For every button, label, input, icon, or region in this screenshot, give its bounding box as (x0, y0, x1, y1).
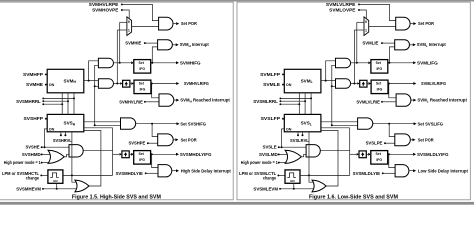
svg-text:1: 1 (365, 29, 367, 33)
wire Set IFG 1 output SVMHIFG (151, 62, 176, 64)
wire module out to A2 top input, branch to A1 top input (84, 80, 99, 82)
wire one-shot output to O2 top input (72, 175, 76, 182)
wire SVMHVLRPE to OR gate top input (122, 4, 159, 20)
wire module out to A2 top input, branch to A1 top input (321, 80, 336, 82)
wire Set IFG 2 output SVMHVLRIFG (151, 83, 176, 85)
wire SVS module output to A3 top input (84, 121, 121, 123)
edge detector box E2 (122, 151, 129, 158)
wire SVMLE into module ON (283, 84, 284, 86)
wire SVSHRVL stubs (60, 132, 62, 135)
wire U2 bottom input from IFG line (389, 47, 394, 63)
and-gate A6 delay interrupt (158, 165, 172, 177)
one-shot delay box T1 (48, 170, 63, 183)
svg-text:SVSLRVL: SVSLRVL (290, 138, 309, 143)
and-gate A3 set SVSxIFG (121, 118, 136, 129)
svg-text:IFG: IFG (376, 67, 382, 71)
wire mux input 0 (120, 21, 127, 23)
wire U2 output (410, 44, 413, 46)
and-gate U2 SVM interrupt (395, 40, 410, 50)
wire SVSMHEVM to O2 and EN (43, 188, 77, 190)
svg-text:SVMLVLRPE: SVMLVLRPE (326, 2, 356, 7)
wire A5 output to comparator line (320, 149, 349, 151)
flag box Set IFG 3 (371, 151, 388, 165)
svg-text:Set: Set (138, 152, 144, 156)
mux select 0/1 (364, 17, 369, 36)
wire E1 to Set IFG box 2 (130, 83, 131, 85)
wire O1 output jog to A5 (64, 154, 69, 157)
svg-text:SVSLE: SVSLE (263, 145, 277, 150)
wire SVMHVLRIE to A4 (145, 101, 159, 103)
svg-text:SVSHE: SVSHE (26, 145, 40, 150)
svg-text:change: change (263, 175, 277, 180)
svg-text:SVMHVLRIE: SVMHVLRIE (119, 99, 143, 104)
wire SVS module output to A3 top input (321, 121, 358, 123)
svg-text:IFG: IFG (139, 158, 145, 162)
wire U3 output (173, 139, 175, 141)
svg-text:Set: Set (376, 61, 382, 65)
bus verticals between modules (61, 93, 63, 115)
wire mux input 0 (357, 21, 364, 23)
wire A2 output up to mux input 1 (116, 30, 118, 84)
wire Set IFG 1 output SVMLIFG (388, 62, 413, 64)
svg-text:High power mode = 1: High power mode = 1 (241, 160, 279, 165)
svg-text:SVSHPE: SVSHPE (129, 141, 146, 146)
wire A1 output up to mux input 0 (356, 22, 358, 63)
svg-text:SVSMHEVM: SVSMHEVM (16, 186, 41, 191)
panel border Figure 1.6. Low-Side SVS and SVM (237, 2, 470, 200)
wire A3 output down to POR gate U3 (389, 124, 395, 137)
or-gate U3 set POR low row (395, 134, 411, 146)
wire SVSMLDLYIE to A6 (383, 172, 395, 174)
svg-text:SVSL: SVSL (301, 121, 312, 127)
svg-text:SVMH Reached Interrupt: SVMH Reached Interrupt (180, 98, 230, 104)
wire A6 output (409, 170, 413, 172)
svg-text:EN: EN (290, 179, 294, 183)
svg-text:IFG: IFG (140, 88, 146, 92)
page bottom gray rule (0, 202, 474, 205)
svg-text:SVSLMD: SVSLMD (259, 152, 278, 157)
wire U2 bottom input from IFG line (152, 47, 157, 63)
flag box Set IFG 1 (134, 60, 151, 74)
or-gate O1 SVS mode (48, 150, 64, 163)
wire SVS module lower output net (84, 127, 113, 129)
svg-text:SVSH: SVSH (64, 121, 76, 127)
svg-text:1: 1 (128, 29, 130, 33)
wire SVSHFP into module (46, 118, 47, 120)
or-gate U3 set POR low row (158, 134, 174, 146)
and-gate A4 SVM reached interrupt (159, 94, 174, 106)
svg-text:SVMHOVPE: SVMHOVPE (92, 8, 118, 13)
wire SVSLFP into module (283, 118, 284, 120)
wire Set IFG 3 output SVSMLDLYIFG (388, 153, 413, 155)
svg-text:SVSHRVL: SVSHRVL (53, 138, 72, 143)
wire A2 output up to mux input 1 (353, 30, 355, 84)
svg-text:SVMHIE: SVMHIE (125, 41, 141, 46)
svg-text:IFG: IFG (377, 88, 383, 92)
wire A3 output down to POR gate U3 (152, 124, 158, 137)
svg-text:Set POR: Set POR (181, 137, 198, 142)
svg-text:Set: Set (376, 82, 382, 86)
wire RRL bus bit lines (42, 97, 44, 99)
svg-text:SVMH Interrupt: SVMH Interrupt (180, 42, 210, 48)
wire A3 output (136, 123, 177, 125)
wire SVSLE to ON and A5 top input (279, 146, 306, 148)
wire SVMHE into module ON (46, 84, 47, 86)
wire SVMLVLRIE to A4 (382, 101, 396, 103)
and-gate A4 SVM reached interrupt (396, 94, 411, 106)
svg-text:Low Side Delay Interrupt: Low Side Delay Interrupt (418, 168, 469, 173)
wire SVSLRVL stubs (297, 132, 299, 135)
svg-text:SVMHVLRPE: SVMHVLRPE (89, 2, 119, 7)
wire one-shot output up to SVS module (71, 132, 73, 176)
wire SVMLOVPE to mux select (359, 10, 366, 19)
wire U3 output (410, 139, 412, 141)
svg-text:High power mode = 1: High power mode = 1 (4, 160, 42, 165)
wire O2 output up to SVS module right side (321, 131, 338, 187)
wire RRL bus bit lines (279, 97, 281, 99)
svg-text:SVMLIE: SVMLIE (362, 41, 378, 46)
wire E2 to Set IFG box 3 (129, 153, 131, 155)
svg-text:Figure 1.6. Low-Side SVS and S: Figure 1.6. Low-Side SVS and SVM (309, 194, 398, 200)
svg-text:SVSLPE: SVSLPE (366, 141, 383, 146)
svg-text:ON: ON (49, 83, 55, 87)
svg-text:Set: Set (139, 82, 145, 86)
wire SVSMLEVM to O2 and EN (280, 188, 314, 190)
wire A6 output (172, 170, 176, 172)
wire to edge detector E2 (113, 153, 120, 155)
wire SVMHIE to AND gate (145, 42, 158, 44)
wire A5 output to comparator line (83, 149, 112, 151)
wire mux input 1 (354, 29, 364, 31)
svg-text:SVSMHDLYIFG: SVSMHDLYIFG (180, 152, 212, 157)
svg-text:SVSMLRRL: SVSMLRRL (253, 99, 278, 104)
wire mux output to OR gate bottom input (132, 25, 159, 27)
wire A3 output (373, 123, 414, 125)
svg-text:SVSMHRRL: SVSMHRRL (16, 99, 41, 104)
svg-text:Set SVSHIFG: Set SVSHIFG (180, 121, 206, 126)
wire IFG2 down to A4 top input (152, 84, 159, 98)
svg-text:SVMHFP: SVMHFP (23, 72, 43, 77)
or-gate O2 event mask (75, 180, 89, 192)
svg-text:SVMH: SVMH (64, 78, 77, 84)
and-gate A5 SVS active (69, 145, 83, 157)
wire A4 output (174, 99, 176, 101)
svg-text:SVSLFP: SVSLFP (261, 116, 281, 121)
wire SVMLFP into module (283, 73, 284, 75)
svg-text:SVMHE: SVMHE (26, 82, 43, 87)
svg-text:EN: EN (53, 179, 57, 183)
wire U1 output (410, 23, 413, 25)
svg-text:SVMLOVPE: SVMLOVPE (329, 8, 355, 13)
or-gate U1 set POR high (396, 17, 410, 30)
wire SVMLIE to AND gate (382, 42, 395, 44)
wire SVSHPE to U3 (148, 142, 158, 144)
wire SVMHOVPE to mux select (122, 10, 129, 19)
svg-text:SVSHMD: SVSHMD (22, 152, 41, 157)
svg-text:IFG: IFG (376, 158, 382, 162)
svg-text:Figure 1.5. High-Side SVS and: Figure 1.5. High-Side SVS and SVM (72, 194, 161, 200)
comparator gate A1 (336, 58, 351, 67)
wire O2 output up to SVS module right side (84, 131, 101, 187)
wire ctl change to one-shot (278, 174, 285, 176)
and-gate A5 SVS active (306, 145, 320, 157)
wire SVMLVLRPE to OR gate top input (359, 4, 396, 20)
svg-text:ON: ON (286, 128, 292, 132)
svg-text:Set: Set (139, 61, 145, 65)
wire A2 output to edge detector (114, 83, 121, 85)
wire SVSHE to ON and A5 top input (42, 146, 69, 148)
svg-text:High Side Delay Interrupt: High Side Delay Interrupt (181, 168, 232, 173)
wire mux output to OR gate bottom input (369, 25, 396, 27)
wire SVSMHDLYIE to A6 (146, 172, 158, 174)
wire IFG2 down to A4 top input (389, 84, 396, 98)
wire SVSLPE to U3 (385, 142, 395, 144)
wire enable net to A1/A2/A3 bottom inputs (95, 65, 121, 125)
svg-text:ON: ON (286, 83, 292, 87)
wire IFG3 down to A6 top input (389, 154, 395, 167)
svg-text:SVML Reached Interrupt: SVML Reached Interrupt (417, 98, 467, 104)
wire SVS module lower output net (321, 127, 350, 129)
wire one-shot output net (63, 174, 113, 176)
wire SVSLMD to OR1 (279, 153, 287, 155)
svg-text:SVSMLDLYIE: SVSMLDLYIE (353, 171, 380, 176)
and-gate U2 SVM interrupt (158, 40, 173, 50)
wire A4 output (411, 99, 413, 101)
mux select 0/1 (127, 17, 132, 36)
svg-text:SVSMLEVM: SVSMLEVM (253, 186, 278, 191)
module box SVMH (47, 69, 84, 93)
svg-text:Set POR: Set POR (418, 137, 435, 142)
wire one-shot output net (300, 174, 350, 176)
comparator gate A2 (336, 79, 351, 88)
wire one-shot output to O2 top input (309, 175, 313, 182)
svg-text:SVSMLDLYIFG: SVSMLDLYIFG (417, 152, 449, 157)
svg-text:SVSMHDLYIE: SVSMHDLYIE (116, 171, 143, 176)
svg-text:SVMLIFG: SVMLIFG (417, 60, 438, 65)
svg-text:SVMLFP: SVMLFP (260, 72, 280, 77)
svg-text:SVML Interrupt: SVML Interrupt (417, 42, 447, 48)
or-gate O2 event mask (312, 180, 326, 192)
and-gate A6 delay interrupt (395, 165, 409, 177)
svg-text:Set: Set (376, 152, 382, 156)
svg-text:0: 0 (128, 20, 130, 24)
wire high power mode to OR1 (42, 162, 50, 164)
module box SVSL (284, 114, 321, 131)
wire A1 output up to mux input 0 (119, 22, 121, 63)
wire IFG3 down to A6 top input (152, 154, 158, 167)
flag box Set IFG 2 (134, 80, 151, 94)
wire E1 to Set IFG box 2 (367, 83, 368, 85)
wire SVSHMD to OR1 (42, 153, 50, 155)
wire U1 output (173, 23, 176, 25)
flag box Set IFG 2 (371, 80, 388, 94)
wire SVMHFP into module (46, 73, 47, 75)
wire E2 to Set IFG box 3 (366, 153, 368, 155)
flag box Set IFG 1 (371, 60, 388, 74)
flag box Set IFG 3 (134, 151, 151, 165)
edge detector box E1 (123, 80, 130, 87)
wire Set IFG 3 output SVSMHDLYIFG (151, 153, 176, 155)
wire U2 output (172, 44, 175, 46)
wire mux input 1 (117, 29, 127, 31)
svg-text:SVMLVLRIE: SVMLVLRIE (356, 99, 380, 104)
svg-text:SVML: SVML (301, 78, 313, 84)
svg-text:IFG: IFG (139, 67, 145, 71)
wire A1 output to Set IFG box 1 (114, 62, 131, 64)
module box SVSH (47, 114, 84, 131)
wire A1 output to Set IFG box 1 (351, 62, 368, 64)
wire O1 output jog to A5 (301, 154, 306, 157)
svg-text:SVMHVLRIFG: SVMHVLRIFG (184, 81, 210, 86)
wire enable net to A1/A2/A3 bottom inputs (332, 65, 358, 125)
panel border Figure 1.5. High-Side SVS and SVM (0, 2, 233, 200)
wire high power mode to OR1 (279, 162, 287, 164)
svg-text:SVMLE: SVMLE (263, 82, 280, 87)
and-gate A3 set SVSxIFG (358, 118, 373, 129)
svg-text:0: 0 (365, 20, 367, 24)
wire ctl change to one-shot (41, 174, 48, 176)
edge detector box E1 (360, 80, 367, 87)
svg-text:change: change (26, 175, 40, 180)
module box SVML (284, 69, 321, 93)
or-gate U1 set POR high (159, 17, 173, 30)
svg-text:Set POR: Set POR (181, 21, 198, 26)
bus verticals between modules (298, 93, 300, 115)
or-gate O1 SVS mode (285, 150, 301, 163)
svg-text:Set SVSLIFG: Set SVSLIFG (418, 121, 444, 126)
wire A2 output to edge detector (351, 83, 358, 85)
one-shot delay box T1 (285, 170, 300, 183)
svg-text:ON: ON (49, 128, 55, 132)
wire to edge detector E2 (350, 153, 357, 155)
wire one-shot output up to SVS module (308, 132, 310, 176)
svg-text:SVSHFP: SVSHFP (24, 116, 44, 121)
svg-text:SVMLVLRIFG: SVMLVLRIFG (421, 81, 447, 86)
svg-text:Set POR: Set POR (418, 21, 435, 26)
edge detector box E2 (359, 151, 366, 158)
wire Set IFG 2 output SVMLVLRIFG (388, 83, 413, 85)
svg-text:SVMHIFG: SVMHIFG (180, 60, 201, 65)
page top gray rule (0, 0, 474, 2)
comparator gate A1 (98, 58, 113, 67)
comparator gate A2 (98, 79, 113, 88)
